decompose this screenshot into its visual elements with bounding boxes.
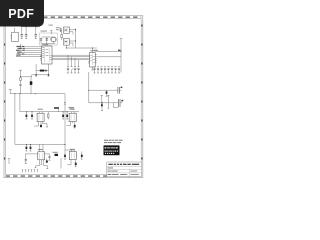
connector J1 xyxy=(10,28,18,42)
ground xyxy=(8,159,10,164)
wire xyxy=(25,144,50,154)
wire xyxy=(20,75,36,78)
diode D8 xyxy=(74,122,76,129)
annotation notes text xyxy=(104,140,123,143)
wire xyxy=(19,94,21,112)
wire xyxy=(69,30,75,47)
regulator U4 xyxy=(63,38,69,45)
title block xyxy=(107,162,142,177)
optocoupler OK1 xyxy=(37,109,44,122)
wire xyxy=(34,122,48,127)
crystal Y1 xyxy=(51,37,57,43)
wire xyxy=(88,72,89,103)
wire VBUS xyxy=(21,26,40,27)
net label row1 xyxy=(54,107,59,112)
wire bus xyxy=(52,55,90,60)
rail row1 wire xyxy=(20,111,79,112)
transistor array U2 xyxy=(88,50,97,67)
capacitor C9 xyxy=(107,95,109,108)
capacitor C11 xyxy=(48,154,50,160)
LED D2 xyxy=(30,77,33,94)
wire xyxy=(66,45,97,52)
net label GND xyxy=(40,70,47,72)
resistor R1 xyxy=(61,32,62,41)
ground xyxy=(46,43,48,44)
wire rail xyxy=(75,28,76,48)
capacitor C6 xyxy=(60,27,62,31)
diode D6 xyxy=(62,112,64,119)
diode D15 xyxy=(106,90,108,96)
wire xyxy=(65,150,75,151)
rail row2 wire xyxy=(15,144,66,145)
drawing frame border xyxy=(4,16,143,178)
net label row2 xyxy=(53,152,59,156)
wire supply xyxy=(10,93,65,94)
wire xyxy=(36,64,48,75)
capacitor C10 polarized xyxy=(119,99,124,107)
power flag xyxy=(9,89,12,93)
capacitor C7 polarized xyxy=(118,87,122,94)
diode D5 xyxy=(40,122,42,128)
wire xyxy=(67,160,71,165)
MCU U1 xyxy=(40,44,52,64)
+5V rail wire xyxy=(120,39,123,73)
net label XTAL xyxy=(49,25,60,31)
capacitor C8 xyxy=(101,95,103,102)
optocoupler OK3 xyxy=(38,149,45,160)
ground xyxy=(91,67,93,70)
wire xyxy=(42,36,56,38)
wire xyxy=(67,122,73,126)
resistor R3 xyxy=(48,112,50,120)
title block text xyxy=(108,164,140,175)
wire xyxy=(14,94,16,145)
net labels column xyxy=(16,46,25,56)
wire xyxy=(95,51,121,57)
net stub xyxy=(50,30,52,34)
capacitor C2 xyxy=(25,27,28,39)
capacitor bank CB2 xyxy=(93,67,120,73)
diode D13 xyxy=(81,151,83,159)
diode D16 xyxy=(101,102,103,110)
PDF badge overlay xyxy=(0,0,44,27)
power flag GND1 xyxy=(19,70,22,77)
diode D3 xyxy=(25,112,27,119)
diode D10 xyxy=(30,144,32,151)
junction xyxy=(35,74,49,75)
diode D11 xyxy=(46,159,48,163)
resistor R2 xyxy=(20,78,22,85)
wire xyxy=(41,42,55,44)
wire xyxy=(89,102,119,104)
net label +5V xyxy=(118,50,120,52)
manufacturer logo xyxy=(104,145,120,155)
frame section labels xyxy=(4,25,142,160)
wire xyxy=(16,44,42,57)
capacitor C1 xyxy=(21,27,24,39)
capacitor C3 xyxy=(35,27,38,39)
svg-text:PDF: PDF xyxy=(8,7,34,21)
capacitor C4 xyxy=(40,38,42,44)
net label row1b xyxy=(69,107,75,108)
diode D14 xyxy=(75,160,77,167)
page background xyxy=(0,0,149,198)
wire xyxy=(64,94,66,150)
optocoupler OK2 xyxy=(69,109,76,122)
capacitor C5 xyxy=(46,37,48,43)
capacitor C12 xyxy=(25,154,27,164)
regulator U3 xyxy=(63,27,69,33)
optocoupler OK4 xyxy=(69,149,76,160)
connector J2 pins xyxy=(22,170,38,173)
ground xyxy=(35,75,50,78)
diode D12 xyxy=(64,150,66,159)
wire xyxy=(35,160,48,169)
wire xyxy=(89,89,118,91)
shield box around crystal xyxy=(40,31,58,45)
wire xyxy=(60,158,62,169)
wire xyxy=(113,103,118,108)
wire xyxy=(68,55,79,66)
diode D7 xyxy=(66,112,68,119)
diode D4 xyxy=(31,112,33,119)
diode D9 xyxy=(25,144,27,151)
net label VBUS xyxy=(94,50,98,51)
capacitor C13 xyxy=(19,84,21,93)
capacitor bank CB1 xyxy=(67,67,80,73)
